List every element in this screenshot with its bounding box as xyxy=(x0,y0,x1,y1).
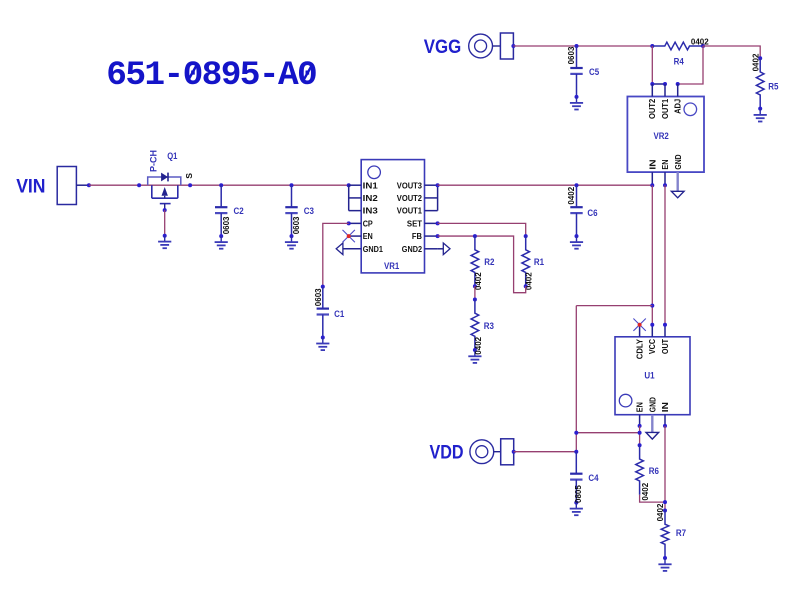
wire VIN rail xyxy=(89,184,349,186)
ground R3 xyxy=(468,356,481,363)
junction VR1 FB xyxy=(436,234,440,238)
svg-text:0603: 0603 xyxy=(314,288,323,306)
VR1 left pin IN3 stub xyxy=(349,210,362,212)
ground C2 xyxy=(215,242,228,249)
svg-text:VIN: VIN xyxy=(16,175,45,197)
ground C6 xyxy=(570,242,583,249)
svg-text:0402: 0402 xyxy=(474,336,483,354)
C1 top pin dot xyxy=(321,285,325,289)
VR2 OUT2-OUT1 tie xyxy=(652,83,665,85)
wire EN horizontal xyxy=(576,432,639,434)
svg-text:VOUT3: VOUT3 xyxy=(397,180,422,190)
IC U1 box xyxy=(615,337,690,415)
svg-text:CP: CP xyxy=(363,218,373,228)
VR1 right pin VOUT2 stub xyxy=(425,197,438,199)
svg-text:R5: R5 xyxy=(768,82,778,92)
capacitor C1 xyxy=(317,287,329,337)
svg-text:P-CH: P-CH xyxy=(148,150,158,172)
capacitor C2 xyxy=(215,185,227,235)
wire R4L down to OUT2 xyxy=(651,46,653,84)
VIN pin stub xyxy=(76,184,89,186)
power-ground triangle VR2 xyxy=(671,191,684,198)
C1 ground lead xyxy=(322,338,324,344)
regulator VR2 box xyxy=(627,97,704,173)
VR2 top pin OUT2 stub xyxy=(651,84,653,97)
wire FB net xyxy=(438,236,526,293)
svg-text:R7: R7 xyxy=(676,528,686,538)
junction VR1 CP xyxy=(347,221,351,225)
connector VGG pad xyxy=(500,33,513,59)
Q1 left channel bar xyxy=(151,185,153,198)
svg-text:VOUT2: VOUT2 xyxy=(397,193,422,203)
R3 bottom pin dot xyxy=(473,348,477,352)
wire R4 to R5 xyxy=(703,46,760,58)
Q1 gate plate xyxy=(160,203,171,205)
VR1 left pin EN stub xyxy=(349,235,362,237)
wire VR2 EN to U1 OUT xyxy=(664,185,666,325)
R2 top pin dot xyxy=(473,234,477,238)
svg-text:OUT2: OUT2 xyxy=(647,99,657,119)
junction VR2 IN / rail end xyxy=(650,183,654,187)
R3 top pin dot xyxy=(473,298,477,302)
junction R6/R7 xyxy=(663,500,667,504)
ground C4 xyxy=(570,509,583,516)
R2 bottom pin dot xyxy=(473,284,477,288)
VR1 right pin GND2 stub xyxy=(425,248,438,250)
wire ADJ to R4 right xyxy=(678,46,703,84)
svg-text:0603: 0603 xyxy=(292,216,301,234)
junction C2 xyxy=(219,183,223,187)
node VIN wire start xyxy=(87,183,91,187)
connector VDD pad xyxy=(501,439,514,465)
U1 pin1 circle xyxy=(619,394,632,407)
VR1 IN1-IN3 tie xyxy=(348,185,350,210)
R5 top pin dot xyxy=(758,56,762,60)
U1 top pin VCC stub xyxy=(651,325,653,337)
op-amp/regulator U VR1 box xyxy=(361,160,424,273)
VR1 right pin FB stub xyxy=(425,235,438,237)
VR1 right pin VOUT3 stub xyxy=(425,184,438,186)
svg-text:VDD: VDD xyxy=(430,441,464,463)
C5 bottom pin dot xyxy=(575,95,579,99)
resistor R4 xyxy=(652,42,703,50)
svg-text:OUT1: OUT1 xyxy=(660,99,670,119)
VR2 pin1 circle xyxy=(684,103,697,116)
svg-text:CDLY: CDLY xyxy=(634,339,644,359)
svg-text:ADJ: ADJ xyxy=(673,99,683,114)
svg-text:GND2: GND2 xyxy=(402,244,422,254)
svg-text:651-0895-A0: 651-0895-A0 xyxy=(106,56,318,95)
Q1 ground lead xyxy=(164,236,166,242)
no-connect X at VR1 EN xyxy=(343,230,355,242)
svg-text:VGG: VGG xyxy=(424,36,462,58)
junction ADJ xyxy=(676,82,680,86)
svg-text:R6: R6 xyxy=(649,466,659,476)
svg-text:C4: C4 xyxy=(588,473,598,483)
wire CP to C1 xyxy=(323,223,349,286)
resistor R3 xyxy=(471,300,479,351)
svg-text:IN1: IN1 xyxy=(363,180,378,190)
C2 ground lead xyxy=(220,236,222,242)
svg-text:R1: R1 xyxy=(534,257,544,267)
junction R4 right xyxy=(701,44,705,48)
Q1 gate wire end dot xyxy=(163,234,167,238)
junction OUT1 xyxy=(663,82,667,86)
U1 bottom pin EN stub xyxy=(639,415,641,426)
wire VDD xyxy=(514,451,577,453)
svg-text:OUT: OUT xyxy=(660,338,670,354)
junction C6 xyxy=(575,183,579,187)
wire U1 IN down to R7 xyxy=(664,426,666,511)
wire SET to R1 xyxy=(438,223,526,236)
no-connect X at U1 CDLY xyxy=(633,319,645,331)
C5 ground lead xyxy=(576,97,578,103)
junction VR2 EN xyxy=(663,183,667,187)
junction VR1 IN1 xyxy=(347,183,351,187)
capacitor C6 xyxy=(570,185,582,235)
resistor R1 xyxy=(522,236,530,286)
Q1 body diode xyxy=(161,173,168,182)
VR1 left pin IN1 stub xyxy=(349,184,362,186)
svg-text:IN: IN xyxy=(660,402,670,412)
R6 top pin dot xyxy=(638,443,642,447)
svg-text:0402: 0402 xyxy=(691,37,709,46)
port arrow at VR1 GND2 xyxy=(443,243,450,255)
R7 ground lead xyxy=(664,558,666,564)
svg-text:C3: C3 xyxy=(304,206,314,216)
svg-text:0402: 0402 xyxy=(752,53,761,71)
svg-text:0402: 0402 xyxy=(641,482,650,500)
junction left riser / EN xyxy=(574,431,578,435)
ground C3 xyxy=(285,242,298,249)
VR1 left pin IN2 stub xyxy=(349,197,362,199)
C6 ground lead xyxy=(576,236,578,242)
svg-text:GND1: GND1 xyxy=(363,244,383,254)
VR2 top pin ADJ stub xyxy=(677,84,679,97)
svg-text:C6: C6 xyxy=(587,208,597,218)
C2 bottom pin dot xyxy=(219,234,223,238)
ground R5 xyxy=(754,115,767,122)
wire R6 bottom to IN riser xyxy=(640,495,665,502)
svg-text:GND: GND xyxy=(647,397,657,412)
svg-text:0603: 0603 xyxy=(567,46,576,64)
ground Q1 gate xyxy=(158,242,171,249)
junction U1 OUT xyxy=(663,323,667,327)
resistor R5 xyxy=(756,58,764,108)
svg-text:0805: 0805 xyxy=(574,485,583,503)
VR1 right pin VOUT1 stub xyxy=(425,210,438,212)
connector J VIN xyxy=(57,167,76,205)
VR2 bottom pin EN stub xyxy=(664,172,666,185)
VR1 right pin SET stub xyxy=(425,222,438,224)
junction VCC riser xyxy=(650,304,654,308)
capacitor C4 xyxy=(570,452,582,502)
resistor R6 xyxy=(636,445,644,494)
ground C1 xyxy=(316,344,329,351)
R7 top pin dot xyxy=(663,509,667,513)
VR2 GND power stub xyxy=(677,172,679,191)
wire VR2 IN to U1 VCC xyxy=(651,185,653,325)
Q1 gate pin dot xyxy=(163,208,167,212)
C1 bottom pin dot xyxy=(321,336,325,340)
wire left riser xyxy=(575,306,577,452)
C2 top xyxy=(220,184,222,186)
VR1 VOUT tie xyxy=(437,185,439,210)
junction VDD/C4 xyxy=(574,450,578,454)
svg-text:EN: EN xyxy=(635,402,645,412)
svg-text:VR1: VR1 xyxy=(384,261,399,271)
wire VGG rail xyxy=(513,45,652,47)
svg-text:IN: IN xyxy=(647,160,657,170)
svg-text:0603: 0603 xyxy=(222,216,231,234)
junction VR1 VOUT3 xyxy=(436,183,440,187)
U1 top pin OUT stub xyxy=(664,325,666,337)
ground R7 xyxy=(658,564,671,571)
title zero slashes xyxy=(189,65,313,80)
junction Q1 source / node S xyxy=(188,183,192,187)
GND2 stub ext xyxy=(438,248,444,250)
capacitor C3 xyxy=(285,185,297,235)
Q1 body-diode bridge xyxy=(148,177,181,185)
R7 bottom pin dot xyxy=(663,556,667,560)
C4 bottom pin dot xyxy=(574,501,578,505)
svg-text:VOUT1: VOUT1 xyxy=(397,206,422,216)
junction OUT2 xyxy=(650,82,654,86)
svg-text:Q1: Q1 xyxy=(167,151,177,161)
svg-text:VR2: VR2 xyxy=(654,131,669,141)
VGG ring link xyxy=(493,45,501,47)
wire U1 EN down xyxy=(639,426,641,445)
Q1 substrate arrow xyxy=(162,187,168,196)
R1 bottom pin dot xyxy=(524,284,528,288)
junction R4 left xyxy=(650,44,654,48)
svg-text:EN: EN xyxy=(363,231,373,241)
resistor R2 xyxy=(471,236,479,286)
C3 bottom pin dot xyxy=(290,234,294,238)
junction U1 EN xyxy=(638,424,642,428)
R1 top pin dot xyxy=(524,234,528,238)
transistor Q1 P-CH MOSFET xyxy=(148,173,181,211)
resistor R7 xyxy=(661,511,669,559)
svg-text:0402: 0402 xyxy=(656,503,665,521)
svg-text:IN3: IN3 xyxy=(363,206,378,216)
svg-text:0402: 0402 xyxy=(567,186,576,204)
svg-text:R4: R4 xyxy=(674,57,684,67)
wire VCC to left riser xyxy=(576,305,652,307)
svg-text:FB: FB xyxy=(412,231,422,241)
connector VGG ring xyxy=(469,34,493,58)
VR1 left pin CP stub xyxy=(349,222,362,224)
C3 ground lead xyxy=(291,236,293,242)
VR1 left pin GND1 stub xyxy=(343,248,361,250)
svg-text:S: S xyxy=(184,173,194,179)
junction U1 IN xyxy=(663,424,667,428)
C4 ground lead xyxy=(575,503,577,509)
VR2 bottom pin IN stub xyxy=(651,172,653,185)
svg-text:C5: C5 xyxy=(589,67,599,77)
svg-text:R3: R3 xyxy=(484,321,494,331)
junction Q1 drain xyxy=(137,183,141,187)
wire Q1 gate to ground xyxy=(164,210,166,236)
svg-text:EN: EN xyxy=(660,160,670,170)
R3 ground lead xyxy=(474,350,476,356)
port arrow at VR1 GND1 xyxy=(336,243,343,255)
wire VOUT3 rail xyxy=(438,184,653,186)
U1 GND power stub xyxy=(651,415,653,433)
junction C5 xyxy=(575,44,579,48)
Q1 right channel bar xyxy=(177,185,179,198)
svg-text:GND: GND xyxy=(673,154,683,169)
junction U1 VCC xyxy=(650,323,654,327)
Q1 gate stub xyxy=(164,204,166,211)
junction C3 xyxy=(290,183,294,187)
R5 bottom pin dot xyxy=(758,107,762,111)
VDD wire start dot xyxy=(512,450,516,454)
svg-text:C1: C1 xyxy=(334,309,344,319)
capacitor C5 xyxy=(570,46,582,96)
U1 top pin CDLY stub xyxy=(639,325,641,337)
U1 bottom pin IN stub xyxy=(664,415,666,426)
VR2 top pin OUT1 stub xyxy=(664,84,666,97)
C6 bottom pin dot xyxy=(575,234,579,238)
power-ground triangle U1 xyxy=(646,432,659,439)
VGG wire start dot xyxy=(511,44,515,48)
svg-text:R2: R2 xyxy=(484,257,494,267)
svg-text:SET: SET xyxy=(407,218,423,228)
svg-text:U1: U1 xyxy=(644,371,654,381)
wire R2 to R3 xyxy=(474,286,476,299)
junction VR1 SET xyxy=(436,221,440,225)
Q1 channel line xyxy=(152,197,178,199)
svg-text:C2: C2 xyxy=(234,206,244,216)
svg-text:IN2: IN2 xyxy=(363,193,378,203)
VR1 pin1 circle xyxy=(368,166,381,179)
connector VDD ring xyxy=(470,440,494,464)
R5 ground lead xyxy=(759,109,761,115)
svg-text:0402: 0402 xyxy=(474,272,483,290)
ground C5 xyxy=(570,103,583,110)
VDD ring link xyxy=(494,451,501,453)
svg-text:VCC: VCC xyxy=(647,339,657,354)
junction EN T xyxy=(638,431,642,435)
